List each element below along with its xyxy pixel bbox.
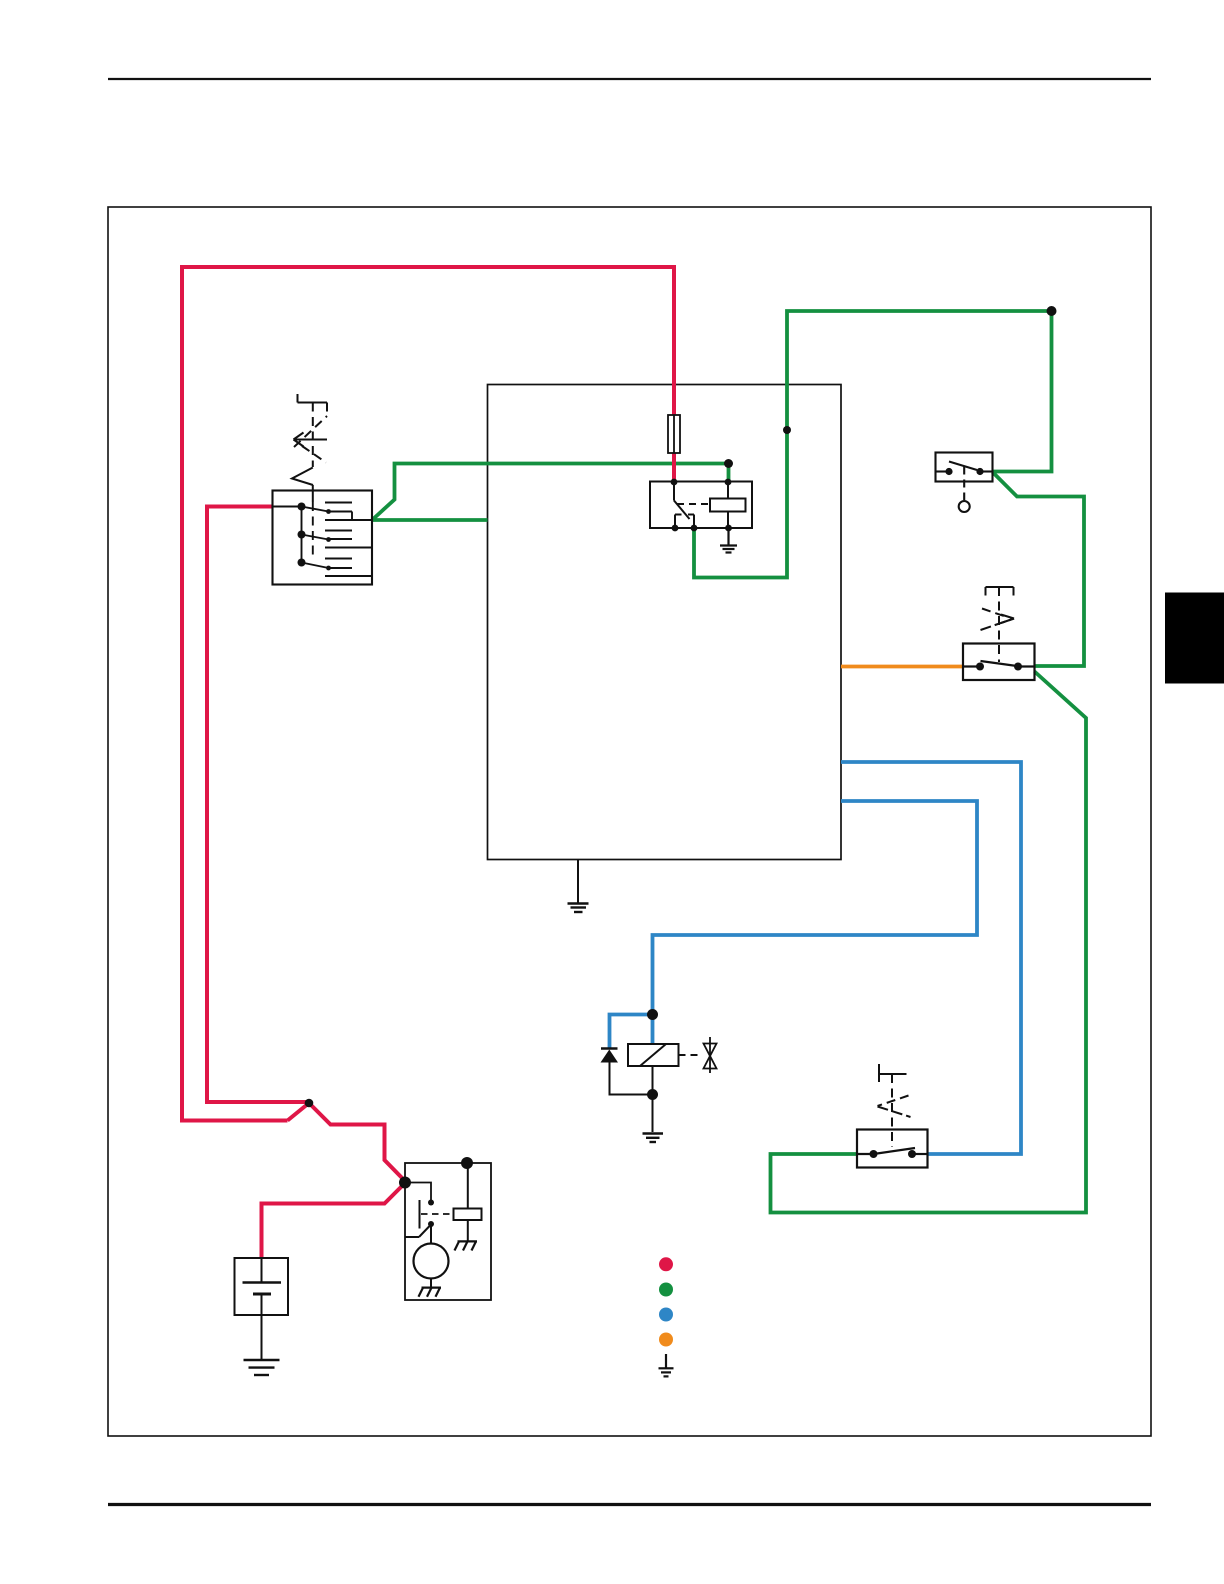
ground (battery) — [244, 1360, 280, 1375]
diode D1 — [601, 1049, 619, 1063]
fuse F1 — [668, 415, 680, 453]
legend: blue wire — [659, 1308, 673, 1322]
valve symbol — [704, 1037, 717, 1073]
ground (fuel solenoid) — [643, 1134, 664, 1143]
decorative page furniture — [108, 78, 1151, 80]
key symbol (mechanical link of S1) — [292, 394, 327, 502]
legend: red wire — [659, 1257, 673, 1271]
node: starter studs — [399, 1157, 473, 1189]
brake switch S3 — [963, 644, 1035, 681]
node: starter contacts — [428, 1200, 434, 1228]
wire green: brake switch down to seat switch — [771, 672, 1087, 1213]
wire green: relay output up over to PTO switch — [694, 311, 1052, 578]
wire green: key switch to module pin — [372, 518, 488, 522]
wire green: PTO switch to brake switch — [993, 472, 1085, 666]
node: solenoid junctions — [647, 1009, 658, 1100]
node: seat switch contacts — [870, 1150, 917, 1158]
legend: orange wire — [659, 1333, 673, 1347]
legend: ground symbol — [659, 1354, 674, 1376]
chassis ground (starter solenoid coil) — [455, 1241, 478, 1250]
wire: diode return — [610, 1063, 653, 1095]
brake pedal symbol (mechanical link of S3) — [981, 587, 1015, 662]
wire orange: module to brake switch — [841, 665, 963, 669]
ground (module) — [568, 860, 589, 913]
key switch S1 — [273, 491, 373, 585]
chassis ground (starter motor) — [419, 1288, 442, 1297]
wire red: key switch feed — [207, 507, 309, 1103]
fuel shutoff solenoid L1 — [628, 1044, 702, 1066]
wire: solenoid to ground — [652, 1066, 654, 1132]
node: PTO switch contacts — [945, 468, 983, 475]
wire red: merge diagonal — [288, 1103, 310, 1121]
wire blue: branch to diode — [610, 1015, 653, 1049]
wire red: starter stud to battery — [262, 1183, 406, 1258]
ground (relay) — [720, 528, 737, 553]
wire red: junction to starter stud — [309, 1103, 405, 1181]
start relay K1 — [650, 482, 752, 529]
wire blue: module to fuel solenoid — [653, 801, 978, 1044]
seat switch S4 — [857, 1130, 928, 1168]
node: brake switch contacts — [976, 663, 1022, 671]
PTO switch S2 — [936, 453, 993, 513]
node: relay terminals — [671, 479, 732, 532]
starter assembly (solenoid + motor) — [405, 1163, 491, 1300]
wire blue: module to seat switch — [841, 762, 1021, 1154]
wire red: fuse to relay — [672, 453, 676, 482]
battery BT1 — [235, 1258, 289, 1359]
seat symbol (mechanical link of S4) — [878, 1064, 911, 1147]
interlock module U1 (main control box) — [488, 385, 842, 860]
legend: green wire — [659, 1283, 673, 1297]
wire green: key switch to start relay coil — [372, 464, 729, 521]
node: key switch poles — [298, 503, 331, 571]
wire green: junction to relay terminal — [727, 464, 731, 482]
node: wire junction dots — [305, 306, 1057, 1107]
wire red: battery loop to fuse (top) — [182, 267, 674, 1121]
